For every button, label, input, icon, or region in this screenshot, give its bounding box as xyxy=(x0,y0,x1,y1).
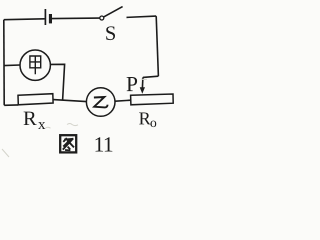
slider P arrowhead xyxy=(140,87,145,94)
label Rx : R xyxy=(24,112,37,125)
meter 乙 circle xyxy=(86,88,115,117)
caption 图 (figure) glyph xyxy=(60,135,76,152)
wire jog to slider xyxy=(143,76,159,77)
wire top-left horizontal xyxy=(4,18,45,21)
meter 甲 circle xyxy=(20,50,50,80)
slider P stem xyxy=(141,77,144,88)
battery B1 long plate xyxy=(44,9,46,25)
switch S pivot xyxy=(100,16,104,20)
wire meter 甲 branch right and down to junction xyxy=(51,64,65,100)
label P xyxy=(127,77,137,91)
label R0 : o subscript xyxy=(151,121,157,127)
wire left rail xyxy=(3,20,5,106)
wire meter 甲 stub from left rail xyxy=(4,64,20,67)
wire R0 to meter 乙 xyxy=(115,100,131,101)
label R0 : R xyxy=(139,112,151,124)
battery B1 short thick plate xyxy=(49,14,52,23)
wire battery to switch xyxy=(52,17,100,20)
wire bottom-left stub xyxy=(4,104,18,106)
meter 甲 glyph xyxy=(30,56,41,74)
wire Rx to meter 乙 xyxy=(53,100,86,102)
rheostat R0 body xyxy=(131,94,174,105)
caption digit 1 xyxy=(95,137,103,151)
wire switch to top-right corner xyxy=(127,16,157,17)
wire right rail xyxy=(156,16,158,76)
resistor Rx body xyxy=(18,94,53,105)
label S xyxy=(106,26,115,40)
label Rx : x subscript xyxy=(38,122,45,129)
meter 乙 glyph xyxy=(94,97,108,107)
switch S blade (open) xyxy=(104,7,123,17)
faint scan smudges xyxy=(2,79,147,157)
caption digit 1 (second) xyxy=(105,137,113,151)
